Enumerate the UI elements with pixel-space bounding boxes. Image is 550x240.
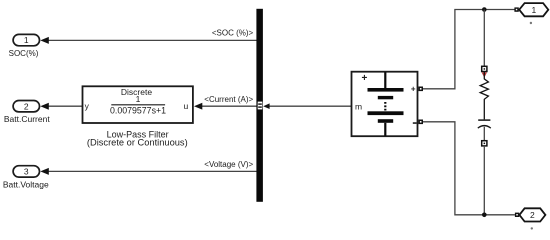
svg-text:1: 1 [532, 5, 537, 15]
node B junction dot [482, 213, 487, 218]
svg-text:<SOC (%)>: <SOC (%)> [212, 28, 254, 37]
transfer function block Low-Pass Filter [83, 86, 193, 123]
wire bus to outport 1 with arrowhead [40, 37, 256, 44]
battery plate long top [368, 88, 404, 92]
svg-text:Batt.Voltage: Batt.Voltage [3, 179, 49, 189]
svg-text:<Voltage (V)>: <Voltage (V)> [204, 160, 253, 169]
battery plate short top [378, 96, 393, 99]
wire bus to outport 3 with arrowhead [40, 168, 256, 175]
capacitor C top plate [478, 119, 490, 121]
battery block [352, 72, 424, 137]
wire battery - to node B (bottom) [423, 122, 515, 215]
svg-text:1: 1 [24, 35, 29, 45]
asterisk dot below port 1 [530, 22, 532, 24]
connection port 2 hexagon [519, 208, 545, 221]
RLC branch top port square [482, 66, 487, 71]
svg-text:+: + [411, 85, 416, 94]
battery dotted middle lead [384, 102, 386, 111]
svg-text:<Current (A)>: <Current (A)> [204, 95, 253, 104]
svg-text:3: 3 [24, 167, 29, 177]
svg-text:0.0079577s+1: 0.0079577s+1 [110, 106, 166, 116]
battery port square plus [418, 87, 423, 92]
battery plate short bottom [378, 119, 393, 123]
battery minus label right [413, 122, 417, 124]
svg-text:Batt.Current: Batt.Current [4, 114, 50, 124]
connection port 1 hexagon [519, 3, 548, 16]
svg-text:1: 1 [136, 94, 141, 104]
red signal direction arrow [482, 72, 487, 77]
svg-text:m: m [355, 101, 362, 111]
block label Low-Pass Filter (Discrete or Continuous) [87, 130, 188, 148]
bus input port marker [258, 102, 263, 110]
connection port 1 pad square [514, 7, 518, 11]
svg-text:2: 2 [24, 101, 29, 111]
svg-text:2: 2 [530, 210, 535, 220]
battery port square minus [418, 120, 423, 125]
connection port 2 pad square [515, 213, 519, 217]
svg-text:y: y [85, 101, 90, 111]
outport 1 SOC(%) [9, 34, 40, 57]
capacitor C curved plate [478, 126, 491, 129]
RLC branch bottom port square [482, 141, 487, 146]
svg-text:(Discrete or Continuous): (Discrete or Continuous) [87, 137, 188, 147]
wire bus to filter u input with arrowhead [194, 103, 257, 110]
wire battery + to node A (top) [423, 10, 515, 89]
bus selector bar [256, 9, 263, 202]
wire filter y to outport 2 with arrowhead [40, 103, 82, 110]
wire capacitor to bottom port square [483, 127, 485, 141]
outport 3 Batt.Voltage [3, 166, 49, 190]
asterisk dot below port 2 [531, 227, 533, 229]
node A junction dot [482, 7, 487, 12]
battery plate long bottom [368, 111, 404, 115]
wire battery m to bus with arrowhead [263, 103, 351, 109]
outport 2 Batt.Current [4, 101, 50, 124]
svg-text:u: u [184, 101, 189, 111]
battery internal top lead [384, 72, 386, 88]
wire RLC bottom to node B [483, 146, 485, 215]
resistor R zigzag [480, 72, 488, 120]
wire node A down to RLC branch [483, 10, 485, 67]
svg-text:+: + [361, 73, 367, 84]
battery internal bottom lead [384, 123, 386, 136]
svg-text:SOC(%): SOC(%) [9, 49, 39, 58]
